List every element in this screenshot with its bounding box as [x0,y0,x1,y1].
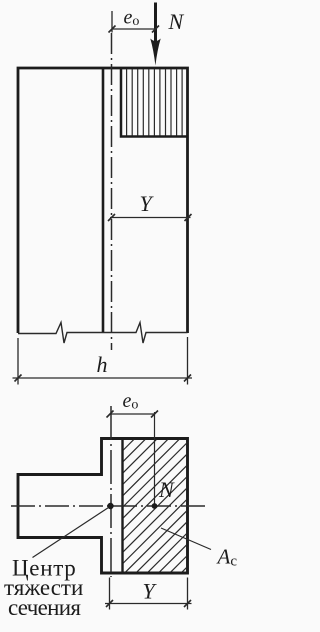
compressed zone boundary (section) [121,439,123,574]
dimension Y (section) [105,578,192,610]
centroid point [107,503,113,509]
column centroid axis (dash-dot) [111,33,113,350]
svg-text:N: N [168,9,185,34]
horizontal centroid axis (dash-dot) [11,505,208,507]
eo dimension (top) [109,11,160,33]
dimension h [13,337,193,385]
compressed zone boundary (elevation) [121,68,188,137]
column bottom break line [18,323,188,344]
compressed zone hatch (vertical lines) [127,69,183,136]
leader to Ac [161,528,211,550]
point N [152,503,158,509]
leader to centroid [33,508,109,558]
svg-text:h: h [97,352,108,377]
point N extension line [154,412,156,504]
column outline (elevation) [18,68,188,333]
label centre of gravity text [4,555,83,620]
dimension Y (elevation) [108,214,192,221]
force N arrow [150,3,160,66]
svg-text:N: N [158,477,175,502]
flange edge projection line [102,68,105,332]
T-section outline [18,439,188,574]
vertical centroid axis (dash-dot) [110,406,112,577]
svg-text:сечения: сечения [8,595,81,620]
compressed zone hatch (diagonal lines) [111,428,320,632]
eo dimension (section) [107,411,159,418]
